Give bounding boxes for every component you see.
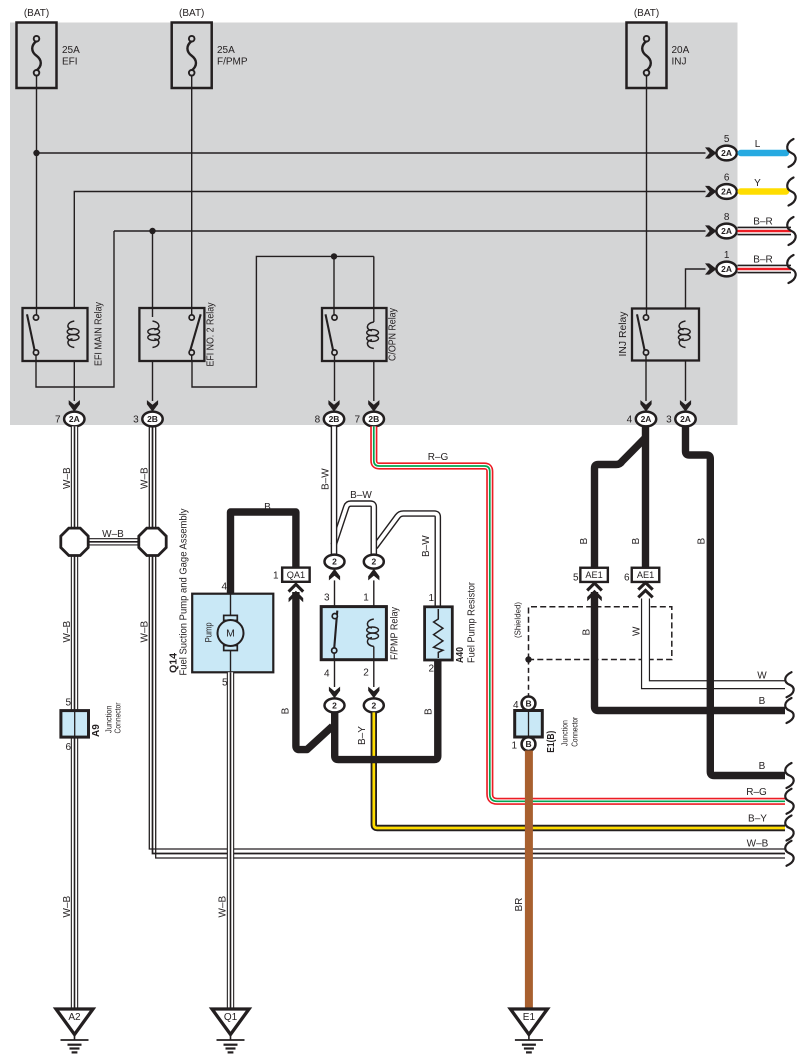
svg-text:6: 6 [624, 573, 630, 584]
svg-text:C/OPN Relay: C/OPN Relay [388, 308, 399, 361]
label B above AE1-5 [579, 538, 590, 545]
svg-text:1: 1 [273, 571, 279, 582]
wire pin2 out of relay [373, 660, 375, 687]
wire C/OPN relay switch feed [333, 256, 335, 316]
relay EFI MAIN coil [67, 321, 79, 348]
label EFI NO. 2 Relay [206, 303, 217, 367]
wire L blue [741, 139, 786, 153]
component Q14 fuel suction pump box [192, 594, 273, 673]
svg-text:W–B: W–B [102, 529, 124, 540]
svg-text:(Shielded): (Shielded) [513, 602, 523, 638]
svg-text:W–B: W–B [62, 896, 73, 918]
label B right of pin4 [424, 708, 435, 715]
svg-text:8: 8 [315, 415, 321, 426]
wire B-R row4 [738, 255, 792, 270]
svg-text:Q1: Q1 [224, 1012, 238, 1023]
svg-text:3: 3 [666, 415, 672, 426]
label W-B left mid [62, 621, 73, 643]
svg-text:R–G: R–G [746, 787, 767, 798]
wire bus row1 to connector 5 2A [37, 152, 706, 154]
wire B-W to fuel pump resistor [375, 514, 438, 608]
label F/PMP Relay [390, 607, 401, 660]
wire B branch to AE1-5 [595, 438, 646, 568]
relay EFI MAIN box [23, 308, 88, 361]
svg-text:B: B [697, 538, 708, 545]
svg-text:2A: 2A [721, 264, 732, 274]
svg-text:4: 4 [627, 415, 633, 426]
label A9 Junction [104, 706, 113, 734]
svg-text:6: 6 [65, 742, 71, 753]
svg-text:W–B: W–B [140, 621, 151, 643]
label R-G top [428, 452, 449, 463]
svg-text:INJ Relay: INJ Relay [618, 312, 629, 357]
connector E1B pin1 circle [522, 737, 536, 751]
svg-text:2B: 2B [329, 414, 340, 424]
wire EFI fuse to EFI MAIN relay switch [36, 88, 38, 316]
svg-text:(BAT): (BAT) [179, 8, 204, 19]
svg-text:EFI MAIN Relay: EFI MAIN Relay [94, 302, 105, 366]
relay C/OPN switch [326, 314, 338, 361]
svg-text:2A: 2A [721, 226, 732, 236]
label E1(B) [546, 731, 557, 753]
pin 4 label [324, 669, 330, 680]
relay block background [10, 23, 738, 426]
ground Q1 [212, 1009, 249, 1052]
svg-text:B: B [281, 707, 292, 714]
svg-text:20A: 20A [672, 45, 690, 56]
component A40 fuel pump resistor [425, 593, 453, 675]
svg-text:B: B [424, 708, 435, 715]
svg-text:A40: A40 [455, 647, 466, 663]
label EFI MAIN Relay [94, 302, 105, 366]
svg-text:7: 7 [55, 415, 61, 426]
connector pin 7 2B bottom [354, 400, 384, 426]
svg-text:8: 8 [724, 212, 730, 223]
pin 3 label [324, 593, 330, 604]
svg-text:2A: 2A [69, 414, 80, 424]
fuse 25A EFI (BAT) [17, 8, 81, 88]
wire B-Y from relay pin2 [374, 712, 785, 828]
wire INJ relay coil to connector 1 2A [686, 269, 706, 308]
pin 2 label [363, 668, 369, 679]
wire W-B octagon bridge [76, 529, 151, 542]
motor M symbol [218, 615, 244, 650]
svg-text:6: 6 [724, 173, 730, 184]
svg-text:B: B [759, 696, 766, 707]
connector pin 1 F/PMP top [364, 555, 384, 581]
svg-text:2: 2 [371, 557, 376, 567]
wire EFI MAIN coil to 7 2A [73, 361, 75, 401]
svg-text:B: B [264, 502, 271, 513]
svg-text:2A: 2A [721, 187, 732, 197]
label W right edge [757, 671, 767, 682]
svg-text:M: M [226, 628, 235, 640]
connector pin 4 F/PMP bottom [325, 687, 345, 713]
wire pin1 into relay [373, 580, 375, 619]
label Shielded [513, 602, 523, 638]
svg-text:QA1: QA1 [287, 570, 305, 580]
connector pin 3 2B bottom [133, 400, 163, 426]
svg-text:R–G: R–G [428, 452, 449, 463]
connector 5 AE1 [573, 568, 608, 584]
pin 1 label [363, 593, 369, 604]
break symbol B-Y right [785, 816, 793, 841]
label W-B left lower [62, 896, 73, 918]
ground A2 [56, 1009, 93, 1052]
wire F/PMP fuse to EFI NO.2 relay switch [191, 88, 193, 316]
break symbol B right 2 [785, 763, 793, 788]
relay EFI MAIN switch [27, 314, 39, 361]
connector pin 8 2A row [705, 212, 737, 238]
connector pin 3 2A bottom [666, 400, 696, 426]
svg-text:2B: 2B [368, 414, 379, 424]
label E1B Connector [571, 717, 580, 747]
svg-text:5: 5 [65, 698, 71, 709]
connector pin 4 2A bottom [627, 400, 657, 426]
wire dashed to E1B [528, 660, 530, 697]
connector 5 AE1 chevron [587, 583, 602, 601]
svg-text:2: 2 [332, 700, 337, 710]
node junction row3 EFI NO.2 coil [149, 228, 155, 234]
label A9 [91, 724, 102, 737]
wire B QA1 shaft to relay pin4 [296, 592, 333, 750]
svg-text:1: 1 [428, 593, 434, 604]
svg-text:BR: BR [514, 898, 525, 912]
label B-W resistor [421, 535, 432, 557]
wire INJ fuse to INJ relay switch [646, 88, 648, 316]
fuse 20A INJ (BAT) [627, 8, 690, 88]
svg-text:A9: A9 [91, 724, 102, 737]
relay INJ box [632, 309, 699, 361]
svg-text:B–W: B–W [350, 490, 372, 501]
svg-text:B–Y: B–Y [357, 726, 368, 745]
relay C/OPN box [322, 308, 387, 361]
svg-text:Fuel Suction Pump and Gage Ass: Fuel Suction Pump and Gage Assembly [179, 509, 190, 676]
label R-G right edge [746, 787, 767, 798]
relay F/PMP box [321, 607, 386, 660]
break symbol R-G right [785, 789, 793, 814]
connector 6 AE1 chevrons [638, 583, 652, 598]
break symbol W right [785, 672, 793, 697]
connector pin 5 2A row [705, 134, 737, 160]
wire INJ switch to 4 2A [645, 361, 647, 401]
svg-text:3: 3 [133, 415, 139, 426]
relay C/OPN coil [367, 322, 379, 349]
wire C/OPN coil to 7 2B [373, 361, 375, 401]
relay INJ switch [637, 314, 649, 361]
wire R-G from 7 2B [374, 426, 785, 801]
svg-text:Fuel Pump Resistor: Fuel Pump Resistor [466, 581, 477, 663]
svg-text:L: L [755, 139, 761, 150]
svg-text:(BAT): (BAT) [634, 8, 659, 19]
connector QA1 chevron [289, 584, 304, 602]
node junction at EFI fuse line row1 [33, 150, 39, 156]
svg-text:B: B [631, 538, 642, 545]
connector E1B pin4 circle [522, 697, 536, 711]
wire B-W from 8 2B to relay pin 3 [331, 426, 338, 555]
junction connector E1B box [515, 710, 543, 737]
label Pump [204, 622, 214, 642]
svg-text:2: 2 [363, 668, 369, 679]
relay EFI NO.2 coil [148, 321, 160, 348]
svg-text:2: 2 [428, 664, 434, 675]
break symbol Y [787, 178, 795, 206]
relay F/PMP coil [367, 619, 379, 647]
svg-text:W–B: W–B [62, 467, 73, 489]
wire pin4 out of relay [334, 660, 336, 687]
svg-text:2A: 2A [721, 148, 732, 158]
label B left of QA1 shaft [281, 707, 292, 714]
connector pin 3 F/PMP top [325, 555, 345, 581]
svg-text:2B: 2B [147, 414, 158, 424]
svg-text:E1: E1 [523, 1012, 536, 1023]
wire B pump to QA1 [231, 502, 296, 593]
relay EFI NO.2 box [139, 308, 204, 361]
svg-text:W–B: W–B [62, 621, 73, 643]
wire Y yellow [741, 178, 786, 192]
svg-text:25A: 25A [217, 45, 235, 56]
label C/OPN Relay [388, 308, 399, 361]
node shield junction [525, 656, 531, 662]
ground E1 [510, 1009, 547, 1052]
shield dashed box [529, 607, 672, 660]
svg-text:2: 2 [371, 700, 376, 710]
svg-text:1: 1 [363, 593, 369, 604]
svg-text:Connector: Connector [114, 702, 123, 733]
svg-text:B: B [582, 629, 593, 636]
relay INJ coil [678, 321, 690, 348]
break symbol B right 1 [785, 698, 793, 723]
svg-text:B–R: B–R [753, 217, 772, 228]
wire EFI NO.2 switch out to C/OPN relay [192, 256, 374, 387]
connector pin 8 2B bottom [315, 400, 345, 426]
wire EFI NO.2 coil to 3 2B [152, 361, 154, 401]
label A40 [455, 647, 466, 663]
wire W-B Q14 pin5 to ground Q1 [227, 672, 234, 1009]
svg-text:B: B [525, 698, 531, 708]
svg-text:B: B [525, 739, 531, 749]
label B-Y right edge [748, 814, 767, 825]
svg-text:3: 3 [324, 593, 330, 604]
break symbol W-B right [785, 841, 793, 866]
junction octagon right [139, 528, 166, 555]
svg-text:1: 1 [724, 250, 730, 261]
label E1B Junction [561, 720, 570, 746]
label W-B mid mid [140, 621, 151, 643]
wire motor internal [230, 594, 232, 673]
label INJ Relay [618, 312, 629, 357]
wire BR brown to ground E1 [525, 751, 533, 1010]
relay F/PMP switch [332, 611, 374, 660]
connector QA1 [273, 568, 310, 582]
wire INJ coil to 3 2A [685, 361, 687, 401]
svg-text:B–R: B–R [753, 255, 772, 266]
connector 6 AE1 [624, 568, 659, 584]
svg-text:25A: 25A [62, 45, 80, 56]
label W-B pump lower [218, 896, 229, 918]
svg-text:4: 4 [221, 582, 227, 593]
wire bus row2 to connector 6 2A [74, 192, 705, 309]
break symbol B-R row4 [787, 255, 795, 283]
svg-text:EFI NO. 2 Relay: EFI NO. 2 Relay [206, 303, 217, 367]
wire C/OPN switch to 8 2B [334, 361, 336, 401]
wire W-B from 7 2A to ground A2 [71, 426, 78, 1009]
label B above AE1-6 [631, 538, 642, 545]
wire B from 4 2A to AE1-6 [642, 426, 649, 568]
svg-text:Junction: Junction [104, 706, 113, 734]
label B in shield box [582, 629, 593, 636]
svg-text:B: B [579, 538, 590, 545]
label B right edge 1 [759, 696, 766, 707]
label W-B right edge [747, 839, 769, 850]
svg-text:W–B: W–B [747, 839, 769, 850]
label W in shield box [632, 626, 643, 636]
svg-text:W–B: W–B [140, 467, 151, 489]
wire bus row3 to connector 8 2A [114, 230, 706, 232]
svg-text:B–Y: B–Y [748, 814, 767, 825]
svg-text:4: 4 [513, 700, 519, 711]
svg-text:Junction: Junction [561, 720, 570, 746]
label B-Y vertical [357, 726, 368, 745]
node junction C/OPN switch feed [331, 253, 337, 259]
junction octagon left [61, 528, 88, 555]
svg-text:1: 1 [511, 741, 517, 752]
break symbol L [787, 139, 795, 167]
svg-text:Y: Y [754, 178, 761, 189]
svg-text:B: B [759, 761, 766, 772]
svg-text:INJ: INJ [672, 57, 687, 68]
label W-B mid upper [140, 467, 151, 489]
wire W-B from 3 2B to right edge [149, 426, 785, 858]
svg-text:5: 5 [573, 573, 579, 584]
svg-text:W: W [757, 671, 767, 682]
label W-B left upper [62, 467, 73, 489]
connector pin 7 2A bottom [55, 400, 85, 426]
svg-text:(BAT): (BAT) [24, 8, 49, 19]
wire C/OPN relay coil feed [373, 256, 375, 322]
svg-text:B–W: B–W [321, 468, 332, 490]
label B-W branch [350, 490, 372, 501]
svg-text:2A: 2A [641, 414, 652, 424]
svg-text:7: 7 [354, 415, 360, 426]
pin 4 E1B [513, 700, 519, 711]
pin 1 E1B [511, 741, 517, 752]
svg-text:A2: A2 [68, 1012, 81, 1023]
connector pin 1 2A row [705, 250, 737, 276]
label A9 Connector [114, 702, 123, 733]
label BR [514, 898, 525, 912]
label Q14 [169, 653, 180, 673]
pin 5 Q14 [222, 678, 228, 689]
wire B from 3 2A to right edge [686, 426, 786, 775]
svg-text:F/PMP Relay: F/PMP Relay [390, 607, 401, 660]
svg-text:2: 2 [332, 557, 337, 567]
svg-text:2A: 2A [680, 414, 691, 424]
wire EFI MAIN switch out loop [36, 231, 114, 387]
pin 4 Q14 [221, 582, 227, 593]
svg-text:AE1: AE1 [637, 570, 654, 580]
connector pin 6 2A row [705, 173, 737, 199]
svg-text:B–W: B–W [421, 535, 432, 557]
svg-text:W: W [632, 626, 643, 636]
svg-text:Pump: Pump [204, 622, 214, 642]
relay EFI NO.2 switch [189, 314, 201, 361]
wire B-R row3 [738, 217, 792, 232]
wire pin3 into relay [334, 580, 336, 614]
svg-text:Connector: Connector [571, 717, 580, 747]
wire B AE1-5 to right edge [595, 592, 786, 711]
svg-text:F/PMP: F/PMP [217, 57, 248, 68]
svg-text:EFI: EFI [62, 57, 78, 68]
svg-text:5: 5 [724, 134, 730, 145]
wire B-W branch to relay pin 1 [334, 504, 374, 555]
label B-W vertical [321, 468, 332, 490]
wire B pin4 junction to resistor [335, 660, 438, 759]
svg-text:AE1: AE1 [585, 570, 602, 580]
connector pin 2 F/PMP bottom [364, 687, 384, 713]
junction connector A9 [61, 698, 89, 754]
svg-text:E1(B): E1(B) [546, 731, 557, 753]
break symbol B-R row3 [787, 217, 795, 245]
label Fuel Pump Resistor [466, 581, 477, 663]
wire W from AE1-6 to right edge [646, 599, 786, 685]
label Fuel Suction Pump and Gage Assembly [179, 509, 190, 676]
label B right vertical [697, 538, 708, 545]
wire EFI NO.2 relay coil feed [152, 231, 154, 317]
fuse 25A F/PMP (BAT) [172, 8, 248, 88]
label B right edge 2 [759, 761, 766, 772]
svg-text:4: 4 [324, 669, 330, 680]
